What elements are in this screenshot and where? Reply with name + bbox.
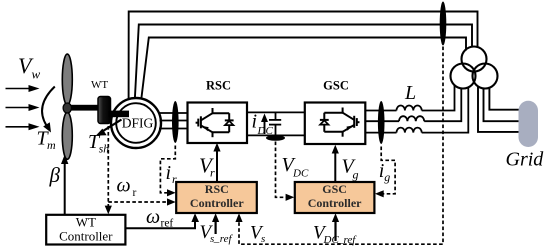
- wires transformer to grid: [478, 87, 520, 132]
- i_g dashed feedback: [381, 147, 395, 194]
- GSC IGBT symbol: [324, 108, 359, 137]
- converter RSC box: [188, 103, 248, 144]
- svg-text:RSC: RSC: [206, 79, 231, 93]
- svg-text:L: L: [404, 82, 416, 104]
- svg-text:i: i: [166, 162, 172, 184]
- DFIG machine outer circle: [111, 98, 161, 148]
- controller WT box: [46, 215, 125, 245]
- svg-text:i: i: [252, 111, 258, 133]
- wind arrow 3: [6, 123, 40, 130]
- three-phase marker rotor: [172, 101, 179, 143]
- svg-text:DFIG: DFIG: [122, 116, 154, 131]
- svg-text:ω: ω: [117, 175, 131, 197]
- capacitor bottom junction: [266, 135, 285, 141]
- svg-text:ω: ω: [146, 206, 160, 228]
- omega_r dashed feedback: [108, 126, 168, 207]
- svg-text:GSC: GSC: [322, 182, 347, 196]
- inductor L phase a: [397, 106, 422, 111]
- T_sh arrow: [103, 120, 122, 132]
- svg-text:Controller: Controller: [308, 196, 362, 210]
- RSC IGBT symbol: [196, 108, 230, 137]
- svg-text:s: s: [261, 233, 265, 245]
- svg-text:g: g: [353, 168, 359, 182]
- V_g arrow GSCctrl to GSC: [334, 151, 336, 182]
- svg-text:Grid: Grid: [506, 149, 545, 171]
- i_r dashed feedback: [160, 146, 175, 193]
- svg-text:ref: ref: [161, 217, 174, 229]
- V_r arrow RSCctrl to RSC: [216, 149, 218, 182]
- gearbox: [98, 97, 111, 124]
- curved arrow T_m: [42, 87, 55, 126]
- stator wire 3 to top bus: [141, 38, 466, 100]
- controller GSC box: [295, 182, 375, 213]
- svg-text:_: _: [213, 232, 220, 244]
- inductor L phase b: [399, 116, 424, 121]
- svg-text:ref: ref: [220, 233, 234, 245]
- GSC output wires: [365, 111, 399, 133]
- V_s_ref arrow: [215, 219, 217, 234]
- V_s dashed feedback from grid bus: [239, 47, 443, 245]
- svg-text:r: r: [172, 172, 177, 186]
- converter GSC box: [305, 103, 366, 145]
- three-phase marker top bus: [440, 2, 447, 46]
- shaft low-speed: [69, 105, 100, 111]
- i_DC arrow: [264, 119, 266, 134]
- svg-text:g: g: [384, 170, 390, 184]
- V_DC_ref arrow: [334, 219, 336, 241]
- svg-text:DC: DC: [292, 167, 309, 179]
- svg-text:Controller: Controller: [59, 228, 113, 243]
- wind arrow 2: [6, 104, 40, 111]
- svg-text:WT: WT: [91, 79, 108, 91]
- wind arrow 1: [6, 85, 40, 92]
- three-phase marker grid side: [378, 101, 385, 144]
- grid bus bar: [519, 101, 539, 147]
- turbine blade bottom: [62, 112, 72, 159]
- svg-text:_: _: [337, 233, 344, 245]
- V_DC dashed feedback: [276, 142, 288, 198]
- svg-text:w: w: [32, 67, 41, 82]
- wires L to transformer: [422, 86, 469, 133]
- svg-text:r: r: [133, 187, 137, 199]
- svg-text:RSC: RSC: [205, 182, 229, 196]
- svg-text:r: r: [210, 166, 215, 180]
- svg-text:WT: WT: [76, 215, 96, 230]
- DC capacitor C: [269, 112, 281, 135]
- svg-text:β: β: [49, 163, 61, 187]
- svg-text:m: m: [47, 138, 56, 152]
- svg-text:GSC: GSC: [323, 79, 349, 93]
- GSC diode D2: [320, 120, 328, 124]
- shaft high-speed: [109, 111, 130, 118]
- svg-text:DC: DC: [257, 125, 274, 137]
- transformer T1 left winding: [451, 64, 476, 89]
- stator wire 2 to top bus: [135, 25, 472, 99]
- DC link rail bottom: [247, 134, 305, 136]
- beta pitch arrow: [64, 162, 66, 215]
- stator wire 1 to top bus: [129, 12, 478, 99]
- rotor wires DFIG to RSC: [159, 113, 188, 129]
- RSC diode D1: [225, 121, 233, 125]
- DC link rail top: [247, 111, 305, 113]
- DFIG inner circle: [116, 103, 156, 143]
- turbine hub: [63, 103, 71, 113]
- transformer T1 top winding: [462, 47, 487, 72]
- inductor L phase c: [397, 128, 422, 133]
- omega_ref wire WTctrl to RSCctrl: [126, 219, 195, 228]
- turbine blade top: [62, 54, 72, 105]
- svg-text:Controller: Controller: [190, 196, 244, 210]
- controller RSC box: [176, 182, 257, 213]
- transformer T1 right winding: [473, 64, 498, 89]
